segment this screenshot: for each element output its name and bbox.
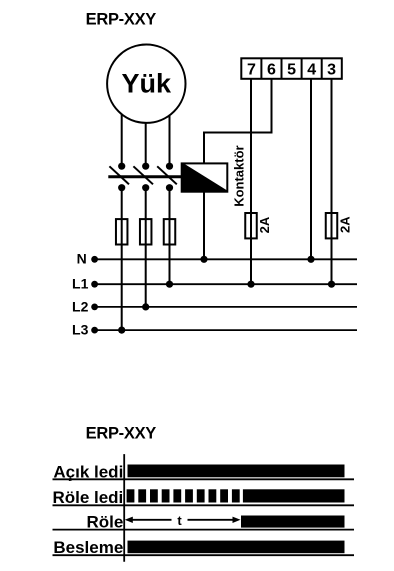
junction F5/L1 [328,281,335,288]
node L3 start [91,327,98,334]
junction pole1/L3 [118,327,125,334]
svg-text:6: 6 [267,62,276,79]
node N start [91,256,98,263]
fuse F2 [140,219,152,244]
svg-text:N: N [77,250,87,266]
svg-text:Yük: Yük [122,68,173,98]
label Röle [86,513,123,532]
pin 7 [247,62,256,79]
signal bar Besleme [128,541,345,554]
contactor contact K1 pole 2 [133,163,153,192]
bus L2 [95,306,357,308]
svg-text:4: 4 [307,62,316,79]
junction F4/L1 [247,281,254,288]
label N [77,250,87,266]
svg-text:7: 7 [247,62,256,79]
node L1 start [91,281,98,288]
label 2A (F4) [257,216,272,233]
signal blink pulses Röle ledi [127,489,240,502]
wire pole 1 to fuse [121,190,123,330]
label Kontaktör [232,145,247,206]
timing axis vertical [123,454,125,562]
pin 5 [287,62,296,79]
timing row line 2 [53,504,355,506]
svg-text:3: 3 [327,62,336,79]
wire load phase 1 [121,115,123,164]
svg-text:Besleme: Besleme [53,538,123,557]
svg-text:5: 5 [287,62,296,79]
terminal block TB1 (7 6 5 4 3) [241,58,341,79]
fuse F5 2A [326,213,338,238]
pin 3 [327,62,336,79]
svg-text:Kontaktör: Kontaktör [232,145,247,206]
bus L1 [95,283,357,285]
signal bar Röle ledi solid [243,489,345,502]
label Açık ledi [53,463,123,482]
fuse F1 [116,219,128,244]
signal bar Röle [241,516,345,528]
fuse F4 2A [245,213,257,238]
svg-text:L1: L1 [72,276,89,292]
svg-text:L3: L3 [72,322,89,338]
junction terminal4/N [307,256,314,263]
label Yük [122,68,173,98]
label Röle ledi [52,488,123,507]
label t [177,513,182,528]
pin 6 [267,62,276,79]
timing row line 1 [53,478,355,480]
wire terminal 7 to L1 [250,79,252,284]
contactor coil K1 [182,163,228,191]
title ERP-XXY (schematic) [86,10,157,28]
wire pole 3 to fuse [169,190,171,284]
title ERP-XXY (timing) [86,425,157,443]
timing row line 4 [53,554,355,556]
junction coil/N [200,256,207,263]
delay arrow t [125,517,241,523]
load M1 (Yük) circle [107,44,185,122]
svg-text:t: t [177,513,182,528]
contactor contact K1 pole 1 [109,163,129,192]
wire load phase 2 [145,122,147,163]
node L2 start [91,304,98,311]
signal bar Açık ledi [128,465,345,478]
label 2A (F5) [337,216,352,233]
wire terminal 6 to coil [204,79,272,164]
wire pole 2 to fuse [145,190,147,307]
bus N [95,258,357,260]
wire terminal 4 to N [310,79,312,259]
label L3 [72,322,89,338]
label Besleme [53,538,123,557]
svg-text:Röle ledi: Röle ledi [52,488,123,507]
svg-text:ERP-XXY: ERP-XXY [86,10,157,28]
bus L3 [95,329,357,331]
label L1 [72,276,89,292]
svg-text:2A: 2A [337,216,352,233]
svg-text:ERP-XXY: ERP-XXY [86,425,157,443]
junction pole2/L2 [142,303,149,310]
junction pole3/L1 [166,281,173,288]
pin 4 [307,62,316,79]
wire coil to N [203,192,205,260]
contactor contact K1 pole 3 [157,163,177,192]
wire load phase 3 [169,116,171,164]
label L2 [72,298,89,314]
mechanical linkage bar [108,175,181,178]
fuse F3 [164,219,176,244]
wire terminal 3 to L1 [331,79,333,284]
timing row line 3 [53,529,355,531]
svg-text:2A: 2A [257,216,272,233]
svg-text:L2: L2 [72,298,89,314]
